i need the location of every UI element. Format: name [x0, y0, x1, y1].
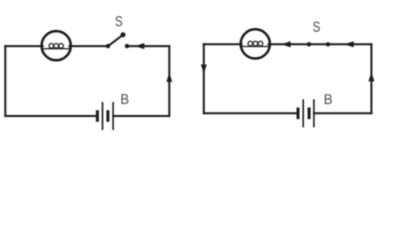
switch S fixed contact dot (left circuit) — [125, 44, 129, 48]
switch S lever (open, left circuit) — [108, 35, 123, 46]
wire left vertical (right circuit) — [203, 44, 205, 113]
wire from switch contact to top-right corner (left circuit) — [127, 45, 169, 47]
switch contact dot 1 (right circuit) — [307, 42, 311, 46]
battery B2 long plate 2 (right circuit) — [313, 99, 315, 127]
wire bottom (right circuit, battery to left) — [204, 112, 298, 114]
switch contact dot 2 (right circuit) — [326, 42, 330, 46]
current arrow up on right vertical (right circuit) — [368, 72, 374, 81]
wire bottom (left circuit, battery to left) — [5, 115, 97, 117]
switch S lever tip dot (left circuit) — [121, 32, 126, 37]
coil filament of G1 — [43, 44, 69, 49]
current arrow before corner (right circuit, pointing left) — [344, 41, 353, 47]
coil filament of G2 — [242, 41, 268, 46]
label S (left circuit switch) — [115, 16, 122, 26]
wire right vertical (left circuit) — [168, 46, 170, 116]
battery B1 short plate 2 (left circuit) — [106, 110, 109, 122]
wire left vertical (left circuit) — [4, 46, 6, 116]
wire from lamp to top-right corner with closed switch (right circuit) — [269, 43, 372, 45]
switch S hinge dot (left circuit) — [106, 44, 110, 48]
current arrow after lamp (right circuit, pointing left) — [281, 41, 290, 47]
battery B1 long plate 1 (left circuit) — [102, 102, 104, 130]
lamp G2 (coil in circle, right circuit) — [241, 29, 270, 58]
label S (right circuit switch) — [313, 22, 320, 32]
lamp G1 (coil in circle, left circuit) — [42, 31, 71, 60]
current arrow on top wire (left circuit, pointing left) — [135, 43, 144, 49]
wire right vertical (right circuit) — [370, 44, 372, 113]
battery B1 short plate 1 (left circuit) — [96, 110, 99, 122]
battery B1 long plate 2 (left circuit) — [112, 102, 114, 130]
label B (right circuit battery) — [325, 94, 332, 104]
battery B2 long plate 1 (right circuit) — [302, 99, 304, 127]
current arrow down on left vertical (right circuit) — [201, 65, 207, 74]
label B (left circuit battery) — [121, 94, 128, 104]
wire bottom (right circuit, right part to battery) — [314, 112, 372, 114]
battery B2 short plate 1 (right circuit) — [297, 108, 300, 120]
battery B2 short plate 2 (right circuit) — [308, 108, 311, 120]
wire right-circuit top-left segment — [204, 43, 242, 45]
wire from lamp to switch hinge (left circuit) — [69, 45, 108, 47]
wire bottom (left circuit, right part to battery) — [113, 115, 169, 117]
current arrow up on right vertical (left circuit) — [166, 73, 172, 82]
wire left-circuit top-left segment — [5, 45, 42, 47]
